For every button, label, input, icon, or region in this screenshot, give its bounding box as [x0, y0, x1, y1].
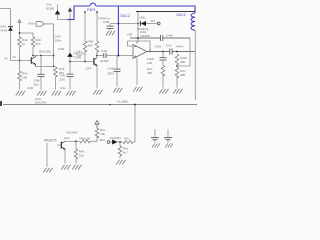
node dot	[134, 104, 136, 106]
wire emitter	[96, 66, 98, 88]
diode D2	[55, 10, 60, 14]
capacitor C4B series	[104, 53, 106, 58]
ground	[52, 91, 61, 96]
svg-text:C4B: C4B	[27, 86, 33, 90]
node dot	[40, 55, 42, 57]
input ground drop	[46, 143, 48, 167]
svg-text:100n: 100n	[55, 39, 62, 43]
capacitor bottom right 2	[164, 129, 173, 148]
wire	[19, 47, 21, 71]
ground	[106, 31, 115, 36]
wire	[69, 57, 71, 74]
wire top-left horizontal	[0, 8, 11, 10]
resistor x120 down	[119, 142, 121, 146]
svg-text:4x7: 4x7	[123, 151, 128, 155]
svg-text:DSC4W: DSC4W	[35, 101, 46, 105]
separator rail +1.25V	[3, 104, 197, 106]
svg-text:C4M: C4M	[155, 45, 162, 49]
resistor R vertical x97	[95, 128, 99, 138]
ground	[116, 160, 125, 165]
svg-text:C4x: C4x	[60, 86, 66, 90]
node dot output	[149, 51, 151, 53]
svg-text:Q4x: Q4x	[64, 136, 70, 140]
blue net wire	[67, 3, 195, 55]
wire connector drop	[53, 24, 55, 67]
capacitor bottom right 1	[151, 129, 160, 148]
collector wire	[65, 140, 80, 142]
wire	[32, 47, 34, 56]
svg-text:10k: 10k	[22, 76, 27, 80]
resistor R4x76	[74, 149, 78, 159]
node dot	[53, 66, 55, 68]
svg-text:+1.25V: +1.25V	[117, 100, 129, 104]
op-amp U1	[133, 45, 147, 59]
svg-text:C4B: C4B	[103, 20, 109, 24]
svg-text:S4C449: S4C449	[66, 131, 77, 135]
opamp V- drop	[136, 58, 138, 85]
trig wire	[110, 141, 112, 143]
wire	[19, 81, 21, 90]
node dot	[75, 140, 77, 142]
base wire Q3	[57, 144, 61, 146]
wire y55.5 to opamp	[97, 55, 104, 57]
resistor R4E-b	[95, 41, 99, 52]
left edge artifact	[0, 101, 2, 106]
output wire	[147, 51, 170, 53]
ground	[61, 165, 70, 170]
wire left vertical lower	[10, 31, 12, 61]
svg-text:10k: 10k	[77, 54, 82, 58]
capacitor C44 plates	[114, 69, 121, 71]
node blue-black	[117, 23, 119, 25]
svg-text:D4C2: D4C2	[121, 14, 130, 18]
ground	[159, 89, 168, 94]
wire	[57, 14, 59, 19]
node dot	[19, 32, 21, 34]
wire y19.5	[58, 19, 75, 21]
resistor R horizontal	[80, 140, 90, 143]
svg-text:W4M2Q: W4M2Q	[137, 27, 149, 31]
node blue-black	[117, 55, 119, 57]
wire	[96, 51, 98, 58]
wire	[55, 77, 57, 90]
transistor Q2	[94, 58, 97, 67]
wire	[118, 141, 124, 143]
svg-text:480: 480	[180, 60, 185, 64]
ground	[133, 87, 142, 92]
node dot	[176, 65, 178, 67]
wire y23.5	[110, 23, 140, 25]
diode D1A	[8, 27, 13, 31]
resistor R4E-a	[83, 41, 87, 52]
rail y55.5	[33, 55, 54, 57]
svg-text:C4E: C4E	[58, 47, 64, 51]
trig terminal circle	[107, 141, 110, 144]
capacitor C40 plates	[67, 74, 74, 76]
node dot	[84, 61, 86, 63]
node dot base wire	[19, 60, 21, 62]
svg-text:(D4M): (D4M)	[100, 59, 109, 63]
svg-text:1N: 1N	[151, 19, 155, 23]
ground	[66, 91, 75, 96]
svg-text:4x: 4x	[5, 57, 9, 61]
wire	[75, 159, 77, 164]
wire	[106, 55, 133, 57]
rail y38 right	[163, 37, 190, 39]
top rail y11.5	[136, 11, 196, 13]
resistor R1X	[18, 71, 22, 81]
wire	[176, 77, 178, 88]
svg-text:P4E1: P4E1	[87, 8, 96, 12]
pad x97	[96, 11, 98, 13]
V+ drop x138	[137, 12, 139, 43]
svg-text:(DSC4E): (DSC4E)	[39, 50, 51, 54]
svg-text:C4x: C4x	[166, 44, 172, 48]
capacitor C1B plates	[38, 74, 45, 76]
blue coil L1	[191, 13, 195, 30]
ground	[113, 88, 122, 93]
ground	[72, 165, 81, 170]
svg-text:R4x: R4x	[124, 137, 130, 141]
svg-text:480: 480	[88, 44, 93, 48]
svg-text:Z0u: Z0u	[34, 83, 40, 87]
node dot	[32, 55, 34, 57]
capacitor C4M series plates	[161, 35, 163, 41]
wire to rail drop	[133, 141, 135, 143]
power arrow x70	[68, 8, 72, 12]
transistor Q3	[61, 141, 65, 150]
wire x85	[84, 13, 86, 41]
resistor R4xb	[175, 67, 179, 78]
wire	[162, 75, 164, 88]
capacitor C4W plates	[160, 58, 167, 60]
diode D2b	[68, 53, 73, 57]
svg-text:+4B: +4B	[127, 33, 133, 37]
wire	[40, 77, 42, 90]
svg-text:10k: 10k	[147, 61, 152, 65]
wire from connector	[44, 23, 53, 25]
ground	[93, 90, 102, 95]
ground	[43, 168, 52, 173]
node dot	[96, 55, 98, 57]
wire x97	[96, 13, 98, 41]
node arrow input	[18, 20, 21, 23]
svg-text:X4M+: X4M+	[176, 45, 184, 49]
wire	[84, 51, 86, 62]
feedback to rail	[177, 38, 190, 66]
capacitor C1B drop	[40, 56, 42, 75]
connector flag LF input	[36, 22, 44, 27]
wire	[146, 23, 157, 25]
cap column x163	[162, 52, 164, 58]
node dot	[69, 61, 71, 63]
terminal circle	[157, 22, 160, 25]
transistor Q1	[11, 56, 36, 67]
wire	[109, 29, 111, 31]
wire	[116, 72, 118, 87]
svg-text:M0s: M0s	[29, 22, 35, 26]
wire	[172, 51, 195, 53]
resistor R1A	[18, 37, 22, 47]
svg-text:480: 480	[147, 71, 152, 75]
capacitor C4B2 drop	[109, 24, 111, 26]
svg-text:(D1B): (D1B)	[46, 7, 54, 11]
wire x70	[69, 12, 71, 53]
svg-text:R4x100: R4x100	[80, 137, 91, 141]
svg-text:PA2004: PA2004	[110, 136, 121, 140]
diode D3	[141, 21, 147, 26]
svg-text:D4C2: D4C2	[177, 13, 186, 17]
svg-text:(4B): (4B)	[140, 16, 146, 20]
node dot	[137, 23, 139, 25]
svg-text:C4M: C4M	[166, 34, 173, 38]
branch resistor x76	[75, 141, 77, 149]
svg-text:480: 480	[180, 73, 185, 77]
svg-text:4148: 4148	[0, 29, 7, 33]
node dot	[53, 55, 55, 57]
right vertical	[194, 30, 196, 100]
capacitor series C4x plates	[170, 49, 172, 55]
svg-text:10k: 10k	[79, 154, 84, 158]
svg-text:270: 270	[35, 42, 40, 46]
svg-text:Z0M: Z0M	[108, 72, 115, 76]
node dot on rail	[109, 104, 111, 106]
svg-text:C4B: C4B	[101, 49, 107, 53]
resistor R2	[54, 67, 58, 77]
node dot	[162, 51, 164, 53]
node dot	[137, 37, 139, 39]
resistor column x177	[175, 54, 179, 65]
resistor R1B top wire	[32, 33, 34, 37]
bottom: drop from rail	[134, 105, 136, 143]
node dot	[69, 19, 71, 21]
rail y38	[130, 37, 160, 39]
wire node line y33	[20, 32, 34, 34]
diode D4	[113, 140, 118, 144]
wire left vertical	[10, 9, 12, 27]
wire	[162, 60, 164, 65]
wire	[69, 77, 71, 90]
emitter wire	[64, 150, 66, 164]
svg-text:LM358: LM358	[140, 34, 150, 38]
base wire Q2	[70, 61, 94, 63]
resistor horizontal trig	[123, 141, 133, 144]
wire antenna drop	[19, 23, 21, 37]
svg-text:1k: 1k	[13, 55, 17, 59]
pad x85	[84, 11, 86, 13]
svg-text:10k: 10k	[100, 132, 105, 136]
diode D2 top stub	[57, 5, 59, 11]
node dot	[119, 141, 121, 143]
resistor R4x120	[118, 146, 122, 156]
ground	[173, 89, 182, 94]
ground	[37, 91, 46, 96]
wire	[90, 136, 97, 141]
svg-text:Q4T: Q4T	[86, 67, 92, 71]
wire	[119, 156, 121, 159]
svg-text:C44: C44	[108, 67, 114, 71]
feedback wire	[128, 41, 151, 52]
resistor R4xa	[161, 65, 165, 76]
svg-text:1k: 1k	[22, 42, 26, 46]
svg-text:Z06: Z06	[60, 78, 66, 82]
ground	[16, 91, 25, 96]
capacitor C4B2 plates	[107, 26, 114, 28]
capacitor C44 drop	[116, 56, 118, 69]
emitter wire y66.5	[36, 66, 56, 68]
node dot	[176, 51, 178, 53]
svg-text:4M4: 4M4	[99, 138, 105, 142]
power arrow bottom	[95, 121, 99, 128]
svg-text:PA9675: PA9675	[44, 139, 57, 143]
resistor R1B	[31, 37, 35, 47]
